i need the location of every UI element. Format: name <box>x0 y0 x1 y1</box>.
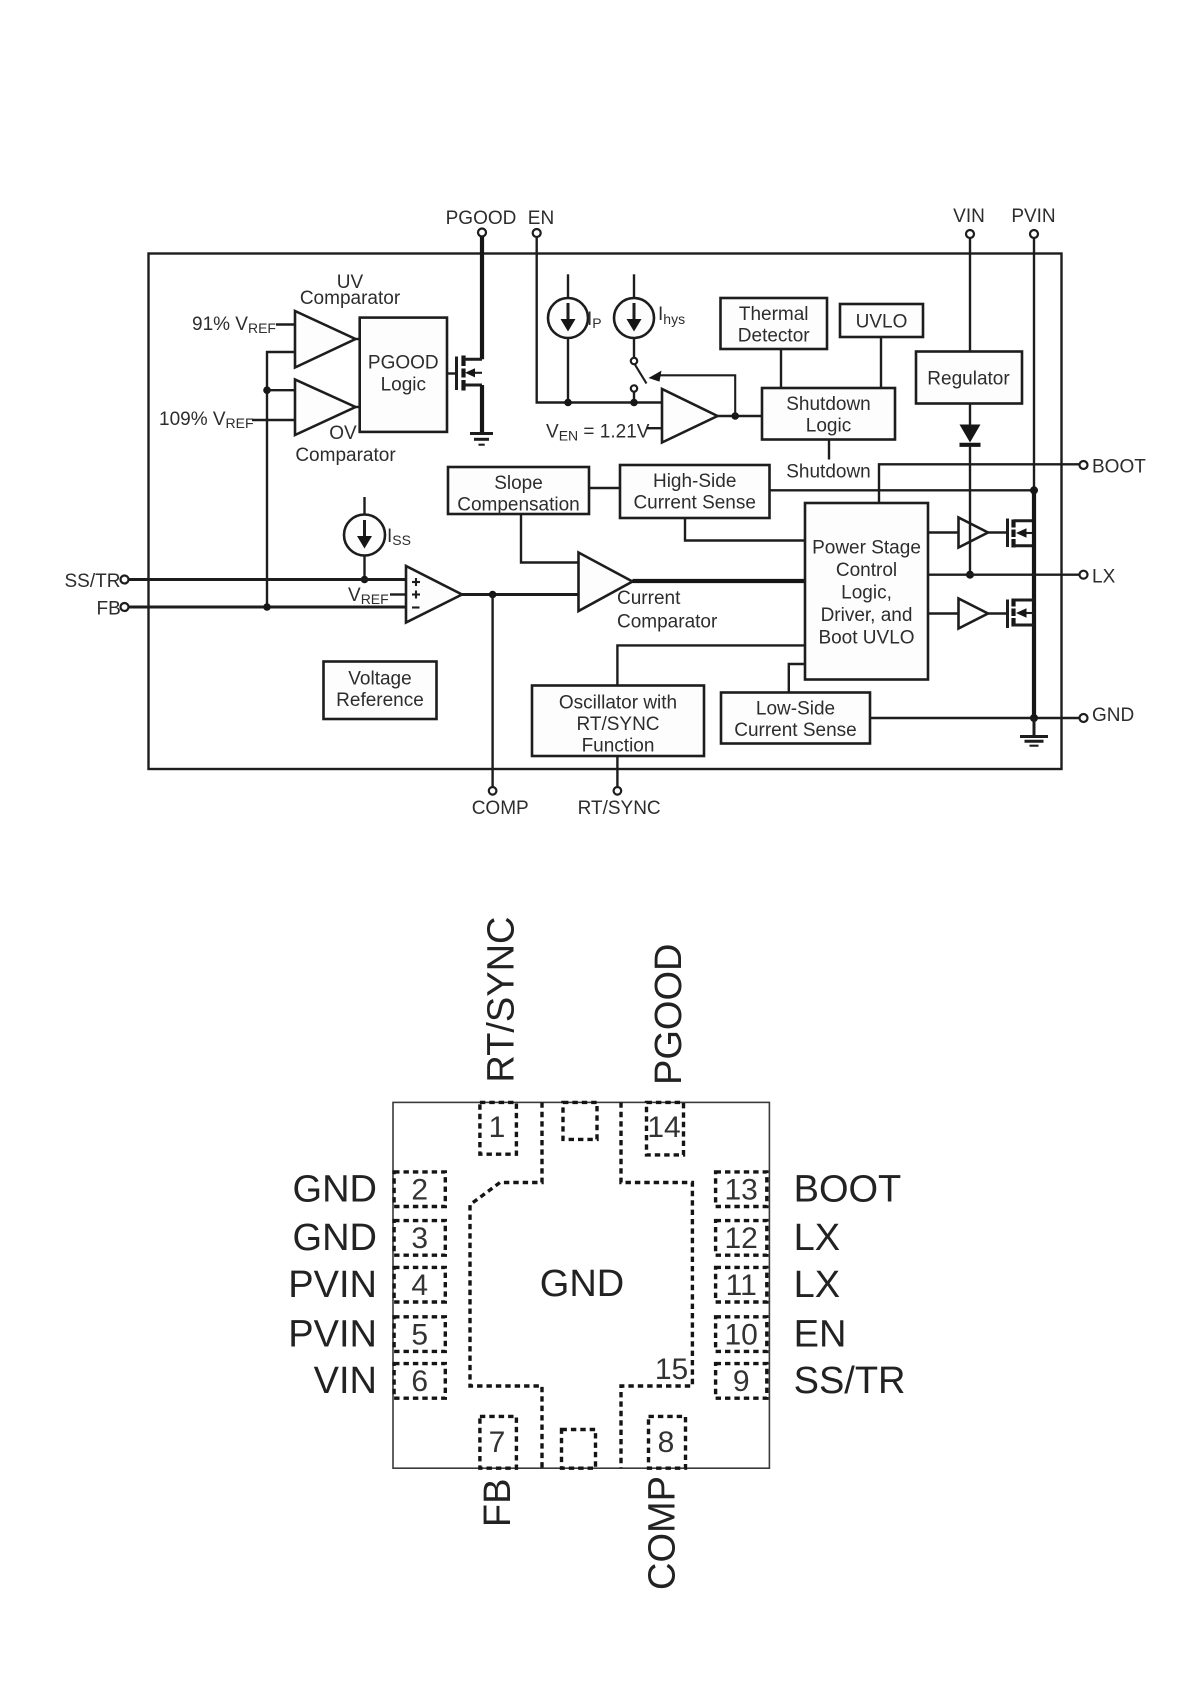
terminal circle PVIN <box>1030 230 1038 238</box>
block Power Stage Control Logic Driver and Boot UVLO <box>805 503 928 680</box>
wire High-Side Current Sense to Power Stage block <box>685 518 805 541</box>
switch lower contact <box>631 385 637 391</box>
transistor low-side MOSFET gate bar <box>1006 600 1009 629</box>
wire 109% VREF input dash <box>252 419 295 421</box>
op-amp error amplifier <box>406 566 462 623</box>
wire PGOOD MOSFET source to ground (thick) <box>480 385 484 433</box>
svg-text:LX: LX <box>1092 567 1116 588</box>
pin 4 pad <box>394 1267 445 1302</box>
junction dot ISS / SS/TR rail <box>361 576 369 584</box>
svg-text:PGOOD: PGOOD <box>648 944 690 1085</box>
transistor PGOOD MOSFET source contact <box>464 384 483 387</box>
transistor high-side MOSFET drain contact <box>1014 519 1035 522</box>
wire PVIN down to high-side drain node <box>1033 238 1035 490</box>
svg-text:Comparator: Comparator <box>295 445 396 466</box>
transistor low-side MOSFET body arrow <box>1024 612 1034 614</box>
block UVLO <box>840 304 923 337</box>
svg-text:GND: GND <box>293 1217 377 1259</box>
terminal circle VIN <box>966 230 974 238</box>
bottom middle pad <box>562 1430 596 1469</box>
terminal circle BOOT <box>1080 461 1088 469</box>
wire oscillator to Power Stage block <box>617 645 805 685</box>
junction dot IP / EN rail <box>564 399 572 407</box>
wire boot rail through high-side driver to LX <box>969 447 971 575</box>
wire Power Stage to Low-Side Current Sense <box>789 664 805 693</box>
svg-text:Voltage: Voltage <box>348 669 411 690</box>
transistor PGOOD MOSFET gate bar <box>455 357 458 391</box>
svg-text:Detector: Detector <box>738 326 810 347</box>
svg-text:4: 4 <box>411 1269 428 1302</box>
svg-text:VIN: VIN <box>953 206 985 227</box>
svg-text:COMP: COMP <box>472 798 529 819</box>
wire IP to EN rail <box>567 338 569 403</box>
current source ISS stub <box>363 497 365 515</box>
block Shutdown Logic <box>762 388 895 440</box>
svg-text:RT/SYNC: RT/SYNC <box>576 714 659 735</box>
svg-text:12: 12 <box>725 1222 758 1255</box>
transistor PGOOD MOSFET body arrow <box>472 372 482 374</box>
svg-text:Function: Function <box>582 736 655 757</box>
pin 5 pad <box>394 1317 445 1352</box>
pin 14 pad <box>647 1102 684 1155</box>
pin 8 pad <box>649 1416 686 1468</box>
wire hysteresis feedback to switch with arrowhead <box>659 375 735 416</box>
current source ISS circle <box>344 515 385 556</box>
svg-text:LX: LX <box>794 1217 840 1259</box>
wire Slope Compensation to High-Side Current Sense <box>589 487 620 489</box>
svg-text:SS/TR: SS/TR <box>65 571 121 592</box>
svg-text:Current Sense: Current Sense <box>734 720 857 741</box>
svg-text:13: 13 <box>725 1174 758 1207</box>
pin 11 pad <box>716 1267 767 1302</box>
wire high-side driver input <box>928 531 959 533</box>
wire FB sense to UV comparator lower input <box>267 352 295 607</box>
transistor high-side MOSFET gate bar <box>1006 519 1009 548</box>
wire Slope Compensation output to current comparator <box>521 514 579 563</box>
wire BOOT net from Boot UVLO up and right to BOOT pin <box>879 464 1080 503</box>
svg-text:BOOT: BOOT <box>794 1169 902 1211</box>
error amplifier plus mark 1 <box>412 581 420 583</box>
svg-text:RT/SYNC: RT/SYNC <box>481 916 523 1082</box>
terminal circle PGOOD <box>478 229 486 237</box>
terminal circle COMP <box>489 787 497 795</box>
svg-text:Boot UVLO: Boot UVLO <box>818 628 914 649</box>
svg-text:EN: EN <box>528 208 554 229</box>
pin 12 pad <box>716 1221 767 1256</box>
transistor PGOOD MOSFET channel segments <box>461 356 465 367</box>
block High-Side Current Sense <box>620 465 770 518</box>
svg-text:11: 11 <box>726 1269 757 1302</box>
svg-text:PVIN: PVIN <box>288 1313 377 1355</box>
junction dot boot rail / LX <box>966 571 974 579</box>
svg-text:FB: FB <box>97 599 121 620</box>
svg-text:PVIN: PVIN <box>1011 206 1055 227</box>
comparator UV <box>295 311 356 368</box>
error amplifier plus mark 2 <box>412 593 420 595</box>
svg-text:GND: GND <box>293 1169 377 1211</box>
driver high-side <box>959 518 989 548</box>
wire FB sense to OV comparator upper input <box>267 389 295 391</box>
svg-text:Logic: Logic <box>381 375 426 396</box>
svg-text:Power Stage: Power Stage <box>812 538 921 559</box>
IC boundary box <box>149 254 1062 770</box>
svg-text:1: 1 <box>489 1111 506 1144</box>
wire switch to EN rail <box>633 392 635 403</box>
svg-text:PGOOD: PGOOD <box>446 208 517 229</box>
svg-text:Driver, and: Driver, and <box>821 605 913 626</box>
switch blade <box>635 365 647 384</box>
svg-text:Low-Side: Low-Side <box>756 699 835 720</box>
junction dot FB sense branch <box>263 386 271 394</box>
svg-text:7: 7 <box>489 1426 506 1459</box>
svg-text:Regulator: Regulator <box>927 369 1010 390</box>
svg-text:PVIN: PVIN <box>288 1264 377 1306</box>
pin 2 pad <box>394 1172 445 1207</box>
svg-text:Logic: Logic <box>806 416 851 437</box>
thermal pad outline right half <box>621 1102 692 1468</box>
comparator current comparator <box>579 553 633 612</box>
wire PGOOD logic to MOSFET gate <box>447 372 456 374</box>
wire shutdown output <box>828 440 830 460</box>
transistor high-side MOSFET channel segments <box>1011 520 1015 528</box>
current source IP arrow <box>567 303 570 321</box>
svg-text:LX: LX <box>794 1264 840 1306</box>
svg-text:5: 5 <box>411 1318 428 1351</box>
terminal circle EN <box>533 229 541 237</box>
block Thermal Detector <box>721 298 828 349</box>
block PGOOD Logic <box>360 318 447 432</box>
block Voltage Reference <box>324 662 437 720</box>
svg-text:Oscillator with: Oscillator with <box>559 693 677 714</box>
block Oscillator with RT/SYNC Function <box>532 686 704 757</box>
current source Ihys arrow <box>633 303 636 321</box>
current source IP stub <box>567 274 569 299</box>
svg-text:OV: OV <box>329 423 357 444</box>
wire RT/SYNC vertical <box>616 756 618 787</box>
wire current comparator output (thick) <box>633 579 806 583</box>
wire OV output stub <box>356 406 361 408</box>
svg-text:VIN: VIN <box>314 1360 377 1402</box>
junction dot FB sense <box>263 603 271 611</box>
svg-text:Reference: Reference <box>336 690 424 711</box>
pin 13 pad <box>716 1172 767 1207</box>
transistor low-side MOSFET drain contact <box>1014 599 1035 602</box>
block Regulator <box>916 352 1022 404</box>
transistor low-side MOSFET source contact <box>1014 624 1035 627</box>
switch upper contact <box>631 358 637 364</box>
svg-text:6: 6 <box>411 1365 428 1398</box>
wire Thermal Detector to Shutdown Logic <box>780 349 782 388</box>
svg-text:Compensation: Compensation <box>457 495 580 516</box>
svg-text:10: 10 <box>725 1318 758 1351</box>
top middle pad <box>563 1102 597 1139</box>
wire low-side driver input <box>928 612 959 614</box>
svg-text:GND: GND <box>540 1263 624 1305</box>
svg-text:Comparator: Comparator <box>300 288 401 309</box>
pin 6 pad <box>394 1364 445 1399</box>
current source Ihys circle <box>614 298 654 338</box>
pin 10 pad <box>716 1317 767 1352</box>
pin 3 pad <box>394 1221 445 1256</box>
svg-text:Current Sense: Current Sense <box>633 493 756 514</box>
svg-text:Current: Current <box>617 588 681 609</box>
wire VIN down to Regulator <box>969 238 971 352</box>
package outline <box>393 1102 769 1468</box>
transistor low-side MOSFET channel segments <box>1011 599 1015 607</box>
terminal circle RT/SYNC <box>614 787 622 795</box>
terminal circle SS/TR <box>121 576 129 584</box>
ground symbol main <box>1033 718 1036 736</box>
svg-text:3: 3 <box>411 1222 428 1255</box>
svg-text:2: 2 <box>411 1174 428 1207</box>
svg-text:FB: FB <box>477 1479 519 1528</box>
thermal pad outline left half with chamfer <box>470 1102 542 1468</box>
terminal circle GND <box>1080 714 1088 722</box>
svg-text:Shutdown: Shutdown <box>786 462 871 483</box>
svg-text:BOOT: BOOT <box>1092 457 1146 478</box>
ground symbol below PGOOD MOSFET <box>470 432 493 435</box>
junction dot drain sense node <box>1030 486 1038 494</box>
wire VEN reference input dash <box>647 427 662 429</box>
wire VREF input dash <box>390 593 406 595</box>
svg-text:Logic,: Logic, <box>841 583 892 604</box>
transistor high-side MOSFET source contact <box>1014 544 1035 547</box>
svg-text:8: 8 <box>658 1426 675 1459</box>
junction dot GND / low-side source <box>1030 714 1038 722</box>
current source Ihys stub <box>633 274 635 299</box>
svg-text:Thermal: Thermal <box>739 304 809 325</box>
wire ISS to SS/TR rail <box>363 556 365 580</box>
wire low-side driver to gate <box>988 612 1006 614</box>
wire UV output stub <box>356 338 361 340</box>
wire 91% VREF input dash <box>276 323 295 325</box>
wire LX net <box>928 574 1080 576</box>
wire high-side driver to gate <box>988 531 1006 533</box>
terminal circle LX <box>1080 571 1088 579</box>
transistor PGOOD MOSFET drain contact <box>464 358 483 361</box>
wire SS/TR to error amplifier <box>129 578 407 581</box>
pin 9 pad <box>716 1364 767 1399</box>
svg-text:Shutdown: Shutdown <box>786 394 871 415</box>
wire COMP vertical <box>491 595 493 788</box>
wire UVLO to Shutdown Logic <box>880 337 882 388</box>
pin 1 pad <box>480 1102 517 1154</box>
svg-text:Control: Control <box>836 560 897 581</box>
wire EN vertical then horizontal to enable comparator <box>537 237 662 403</box>
svg-text:RT/SYNC: RT/SYNC <box>578 798 661 819</box>
junction dot COMP tap <box>489 591 497 599</box>
wire High-Side Current Sense tap to drain node <box>770 489 1035 491</box>
current source IP circle <box>548 298 588 338</box>
svg-text:9: 9 <box>733 1365 750 1398</box>
terminal circle FB <box>121 603 129 611</box>
svg-text:EN: EN <box>794 1313 847 1355</box>
comparator enable (VEN) <box>662 389 718 443</box>
svg-text:Comparator: Comparator <box>617 612 718 633</box>
diode bootstrap <box>960 425 981 443</box>
svg-text:COMP: COMP <box>641 1476 683 1590</box>
error amplifier minus mark <box>412 606 420 608</box>
svg-text:High-Side: High-Side <box>653 471 736 492</box>
wire GND net to pin <box>870 717 1080 719</box>
wire error amplifier output <box>462 593 579 596</box>
wire Regulator to diode <box>969 404 971 426</box>
svg-text:Slope: Slope <box>494 473 543 494</box>
svg-text:PGOOD: PGOOD <box>368 353 439 374</box>
svg-text:SS/TR: SS/TR <box>794 1360 906 1402</box>
svg-text:UVLO: UVLO <box>856 312 908 333</box>
comparator OV <box>295 380 356 436</box>
block Slope Compensation <box>448 467 589 514</box>
wire enable comparator output <box>718 415 763 417</box>
junction dot hysteresis feedback tap <box>731 412 739 420</box>
wire power MOSFET chain PVIN to GND (thick) <box>1032 490 1036 718</box>
svg-text:15: 15 <box>655 1353 688 1386</box>
transistor high-side MOSFET body arrow <box>1024 532 1034 534</box>
junction dot switch / EN rail <box>630 399 638 407</box>
svg-text:GND: GND <box>1092 705 1134 726</box>
svg-text:14: 14 <box>647 1111 680 1144</box>
block Low-Side Current Sense <box>721 693 870 744</box>
wire FB to error amplifier <box>129 606 407 609</box>
current source ISS arrow <box>363 520 366 538</box>
wire Ihys to switch <box>633 338 635 358</box>
driver low-side <box>959 599 989 629</box>
pin 7 pad <box>480 1416 517 1468</box>
wire PGOOD vertical (thick) <box>480 237 484 360</box>
